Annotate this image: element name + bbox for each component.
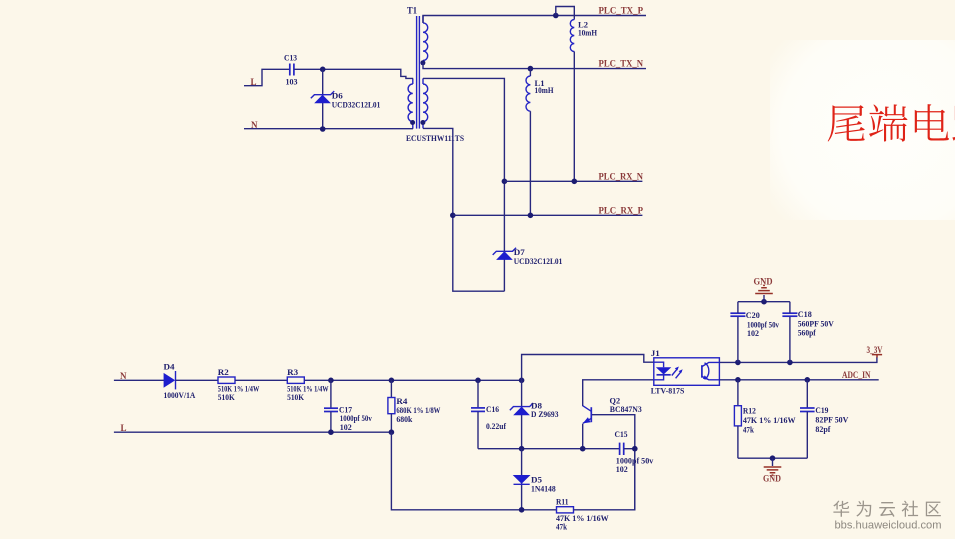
svg-text:LTV-817S: LTV-817S	[651, 387, 685, 396]
wire secondary top to PLC_TX_P	[423, 16, 646, 23]
wire C20-C18 top rail	[738, 301, 790, 303]
node L2 bottom on RX_N	[572, 179, 578, 185]
svg-text:C20: C20	[746, 311, 760, 320]
svg-text:GND: GND	[754, 276, 773, 286]
T1 secondary bottom coil	[423, 84, 428, 122]
watermark cjk gray	[833, 501, 941, 517]
svg-text:UCD32C12L01: UCD32C12L01	[332, 100, 381, 109]
zener diode D8 Z9693	[510, 401, 559, 419]
svg-text:10mH: 10mH	[535, 86, 555, 95]
inductor L1 10mH	[529, 69, 531, 76]
node D8 top	[519, 378, 525, 384]
node RX_P left junction	[450, 213, 456, 219]
svg-text:R2: R2	[218, 368, 229, 377]
wire C13 to T1 staircase	[294, 69, 413, 78]
svg-text:1000pf 50v: 1000pf 50v	[616, 457, 654, 466]
node C18 top rail	[787, 360, 793, 366]
svg-text:82PF 50V: 82PF 50V	[815, 415, 848, 424]
svg-text:10mH: 10mH	[578, 28, 598, 37]
capacitor C15 1000pf	[615, 430, 654, 474]
optocoupler J1 LTV-817S	[651, 349, 720, 396]
capacitor C17 1000pf	[324, 380, 372, 432]
wire ADC_IN row	[719, 379, 878, 381]
svg-text:510K: 510K	[218, 393, 236, 402]
wire GND stub up	[763, 295, 765, 302]
svg-text:T1: T1	[407, 6, 417, 16]
svg-text:1000pf 50v: 1000pf 50v	[340, 414, 372, 423]
wire L stub	[244, 69, 289, 85]
wire PLC_RX_N	[504, 180, 642, 182]
node C17 bottom	[328, 429, 334, 435]
svg-text:D4: D4	[164, 363, 175, 372]
svg-text:ADC_IN: ADC_IN	[842, 370, 871, 380]
wire D6 vertical	[322, 69, 324, 129]
node L2 tap	[553, 13, 559, 19]
svg-text:102: 102	[340, 423, 352, 432]
svg-text:560pf: 560pf	[798, 328, 816, 337]
svg-text:ECUSTHW111TS: ECUSTHW111TS	[406, 134, 465, 143]
resistor R12 47K	[734, 380, 795, 458]
svg-text:J1: J1	[651, 349, 660, 358]
wire N row left	[114, 379, 164, 381]
wire secondary bottom loop	[423, 128, 504, 291]
svg-text:D Z9693: D Z9693	[531, 410, 559, 419]
svg-text:560PF 50V: 560PF 50V	[798, 320, 834, 329]
ground symbol (top)	[754, 276, 773, 293]
node D6 top junction	[320, 67, 326, 73]
svg-text:1N4148: 1N4148	[531, 484, 556, 493]
node C20 top rail	[735, 360, 741, 366]
svg-text:PLC_TX_N: PLC_TX_N	[599, 59, 644, 69]
J1 light arrows	[672, 368, 682, 378]
svg-text:C18: C18	[798, 310, 812, 319]
svg-text:C19: C19	[815, 406, 828, 415]
node R12 top	[735, 377, 741, 383]
capacitor C13	[284, 54, 298, 87]
svg-text:UCD32C12L01: UCD32C12L01	[514, 257, 563, 266]
svg-text:GND: GND	[763, 474, 781, 484]
svg-text:47K 1% 1/16W: 47K 1% 1/16W	[743, 416, 796, 425]
svg-text:47k: 47k	[556, 523, 567, 532]
svg-text:103: 103	[286, 78, 298, 87]
svg-text:C16: C16	[486, 405, 499, 414]
wire D4 to R2	[176, 379, 219, 381]
wire R2 to R3	[235, 379, 287, 381]
power symbol 3.3V	[867, 345, 883, 358]
diode D4 1000V/1A	[164, 363, 196, 401]
title halo	[0, 0, 1, 1]
diode D5 1N4148	[513, 449, 556, 510]
title text red	[828, 104, 955, 142]
wire R11 to base riser	[574, 449, 635, 510]
resistor R2 510K	[218, 368, 259, 402]
capacitor C18 560PF	[782, 302, 834, 363]
node R4 bottom	[389, 429, 395, 435]
capacitor C20 1000pf	[730, 302, 779, 363]
svg-text:D6: D6	[332, 92, 343, 101]
svg-text:102: 102	[616, 465, 628, 474]
svg-text:1000pf 50v: 1000pf 50v	[747, 320, 779, 329]
svg-text:C13: C13	[284, 54, 297, 63]
wire L row	[114, 431, 392, 433]
svg-text:C15: C15	[615, 430, 628, 439]
wire D8 vertical + link to J1 pin1	[522, 355, 654, 449]
inductor L2 10mH	[570, 20, 574, 52]
J1 LED	[654, 362, 664, 380]
resistor R11 47K	[556, 498, 609, 532]
wire R3 to D8 branch	[304, 379, 521, 381]
wire 3.3V row	[719, 357, 877, 362]
svg-text:47k: 47k	[743, 425, 754, 434]
wire L2 bump	[556, 7, 575, 20]
transformer T1	[407, 6, 423, 129]
zener diode D6 UCD32C12L01	[311, 91, 381, 109]
svg-text:82pf: 82pf	[815, 425, 830, 434]
svg-text:R11: R11	[556, 498, 569, 507]
node R4 top	[389, 378, 395, 384]
wire N top row	[244, 128, 413, 130]
svg-text:R4: R4	[396, 397, 407, 406]
node L1 bottom on RX_P	[528, 213, 534, 219]
wire bottom rail R12-C19	[738, 457, 807, 459]
svg-text:D5: D5	[531, 476, 542, 485]
svg-text:102: 102	[747, 329, 759, 338]
wire PLC_RX_P	[453, 214, 643, 216]
node D6 bottom junction	[320, 126, 326, 132]
svg-text:BC847N3: BC847N3	[610, 405, 642, 414]
T1 secondary top coil	[423, 23, 428, 61]
wire secondary bottom top-end across and down	[423, 78, 504, 291]
svg-text:R12: R12	[743, 407, 756, 416]
svg-text:0.22uf: 0.22uf	[486, 422, 506, 431]
node C19 top	[805, 377, 811, 383]
node Q2 emitter on row	[580, 446, 586, 452]
T1 primary coil	[408, 84, 413, 122]
svg-text:PLC_RX_P: PLC_RX_P	[599, 206, 644, 216]
node L1 tap	[528, 66, 534, 72]
svg-text:PLC_RX_N: PLC_RX_N	[599, 172, 644, 182]
node D5 bottom	[519, 507, 525, 513]
wire GND stub down	[772, 458, 774, 466]
svg-text:1000V/1A: 1000V/1A	[164, 391, 196, 400]
wire L2 to PLC_RX_N	[573, 52, 575, 182]
node C15 right	[632, 446, 638, 452]
svg-text:D7: D7	[514, 248, 525, 257]
svg-text:bbs.huaweicloud.com: bbs.huaweicloud.com	[835, 519, 942, 531]
node C17 top	[328, 378, 334, 384]
wire R4 down to bottom row	[391, 432, 556, 510]
wire C16-D8-Q2-C15 row	[478, 448, 619, 450]
svg-text:3_3V: 3_3V	[867, 345, 883, 355]
transistor Q2 BC847N3	[583, 380, 654, 449]
wire Q2 base to C15 right riser	[592, 415, 635, 510]
wire secondary to PLC_TX_N	[423, 63, 646, 69]
svg-text:PLC_TX_P: PLC_TX_P	[599, 6, 644, 16]
svg-text:47K 1% 1/16W: 47K 1% 1/16W	[556, 514, 609, 523]
node D8 bottom	[519, 446, 525, 452]
capacitor C19 82PF	[800, 380, 849, 458]
resistor R4 680K	[388, 380, 441, 432]
wire L1 to PLC_RX_P	[529, 111, 531, 215]
node C16 top	[475, 378, 481, 384]
T1 polarity dots	[420, 60, 425, 65]
node GND rail	[761, 299, 767, 305]
zener diode D7 UCD32C12L01	[493, 248, 563, 266]
svg-text:R3: R3	[287, 368, 298, 377]
node RX_N junction	[502, 179, 508, 185]
svg-text:680K 1% 1/8W: 680K 1% 1/8W	[396, 406, 440, 415]
svg-text:510K: 510K	[287, 393, 305, 402]
node GND bottom rail	[770, 455, 776, 461]
svg-text:D8: D8	[531, 401, 542, 410]
capacitor C16 0.22uf	[471, 380, 506, 448]
svg-text:C17: C17	[339, 405, 352, 414]
J1 phototransistor	[701, 365, 703, 378]
svg-text:680k: 680k	[396, 415, 413, 424]
resistor R3 510K	[287, 368, 329, 402]
ground symbol (bottom)	[763, 467, 781, 484]
